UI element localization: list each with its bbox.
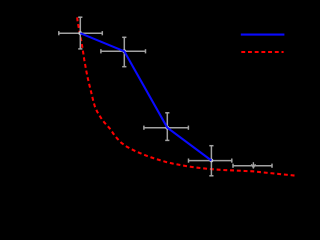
data point P1 error bars: [59, 17, 103, 49]
red dashed model curve: [77, 17, 297, 175]
data point P4 error bars: [189, 146, 232, 176]
marker P3: [165, 126, 169, 130]
upper-limit point P5 horizontal error bar: [233, 164, 272, 168]
legend blue solid line sample: [241, 34, 285, 36]
data point P2 error bars: [101, 37, 146, 66]
marker P4: [210, 159, 214, 163]
legend red dashed line sample: [241, 51, 283, 53]
marker P1: [78, 31, 82, 35]
data point P3 error bars: [144, 113, 189, 141]
blue data line: [80, 33, 211, 160]
upper-limit point P5 down arrow: [251, 162, 255, 168]
marker P2: [122, 49, 126, 53]
